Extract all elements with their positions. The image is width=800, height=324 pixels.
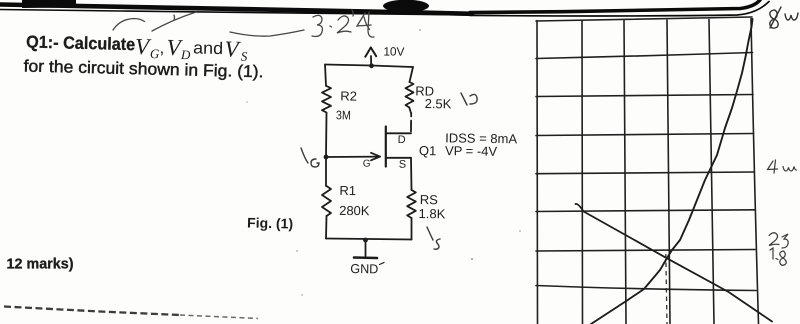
svg-text:Q1:- Calculate: Q1:- Calculate xyxy=(26,32,136,55)
svg-text:Fig. (1): Fig. (1) xyxy=(247,215,293,232)
svg-text:R2: R2 xyxy=(340,88,357,103)
svg-text:Q1: Q1 xyxy=(419,143,437,158)
svg-text:RS: RS xyxy=(420,192,439,207)
svg-text:2.5K: 2.5K xyxy=(425,96,452,111)
svg-text:R1: R1 xyxy=(339,183,356,198)
svg-text:12 marks): 12 marks) xyxy=(7,257,74,273)
svg-text:GND: GND xyxy=(350,261,378,276)
svg-text:1.8K: 1.8K xyxy=(419,206,446,221)
svg-text:3M: 3M xyxy=(336,108,351,122)
svg-text:10V: 10V xyxy=(383,44,404,58)
svg-text:280K: 280K xyxy=(339,203,370,218)
svg-text:S: S xyxy=(399,159,407,171)
svg-text:VP = -4V: VP = -4V xyxy=(445,143,498,159)
svg-text:D: D xyxy=(398,134,406,146)
svg-text:G: G xyxy=(363,158,371,169)
